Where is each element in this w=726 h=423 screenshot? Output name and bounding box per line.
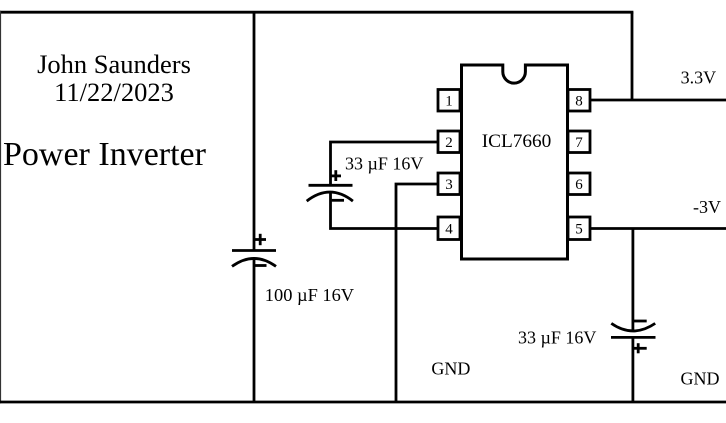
svg-text:2: 2 (445, 135, 453, 151)
wire: pin 2 to C2 (331, 142, 439, 184)
svg-text:GND: GND (431, 359, 470, 379)
wire: C3 to GND rail (632, 337, 635, 402)
svg-text:ICL7660: ICL7660 (482, 131, 552, 152)
svg-text:GND: GND (681, 369, 720, 389)
pin 7 box (568, 131, 590, 153)
svg-text:4: 4 (445, 222, 453, 238)
svg-text:33 µF 16V: 33 µF 16V (345, 153, 423, 173)
svg-text:8: 8 (575, 94, 583, 110)
svg-text:5: 5 (575, 222, 583, 238)
svg-text:Power Inverter: Power Inverter (3, 136, 207, 173)
wire: V+ rail down to C1 (253, 12, 256, 250)
pin 6 box (568, 173, 590, 195)
capacitor C2 33uF (307, 170, 353, 201)
wire: -3V down to C3 (632, 229, 635, 331)
svg-text:-3V: -3V (693, 197, 721, 217)
pin 2 box (438, 131, 460, 153)
svg-text:33 µF 16V: 33 µF 16V (518, 328, 596, 348)
svg-text:1: 1 (445, 94, 453, 110)
svg-text:John Saunders: John Saunders (37, 49, 191, 79)
pin 3 box (438, 173, 460, 195)
wire: bottom GND rail (0, 401, 726, 404)
IC U1 ICL7660 body (462, 65, 568, 259)
wire: pin 8 to 3.3V output (590, 99, 726, 102)
capacitor C1 100uF (232, 234, 276, 267)
wire: top V+ rail (0, 11, 633, 14)
svg-text:100 µF 16V: 100 µF 16V (265, 285, 355, 305)
svg-text:6: 6 (575, 177, 583, 193)
svg-text:11/22/2023: 11/22/2023 (54, 77, 174, 107)
wire: C1 to GND rail (253, 259, 256, 402)
wire: C2 to pin 4 (331, 193, 439, 229)
wire: pin 5 -3V output (590, 227, 726, 230)
svg-text:7: 7 (575, 135, 583, 151)
svg-text:3: 3 (445, 177, 453, 193)
wire: left border (0, 11, 1, 404)
pin 1 box (438, 90, 460, 112)
wire: V+ rail down to pin 8 (631, 12, 634, 100)
pin 4 box (438, 217, 460, 240)
wire: pin 3 to GND rail (396, 184, 438, 402)
svg-text:3.3V: 3.3V (681, 68, 717, 88)
pin 5 box (568, 217, 590, 240)
capacitor C3 33uF (611, 321, 656, 353)
pin 8 box (568, 90, 590, 112)
